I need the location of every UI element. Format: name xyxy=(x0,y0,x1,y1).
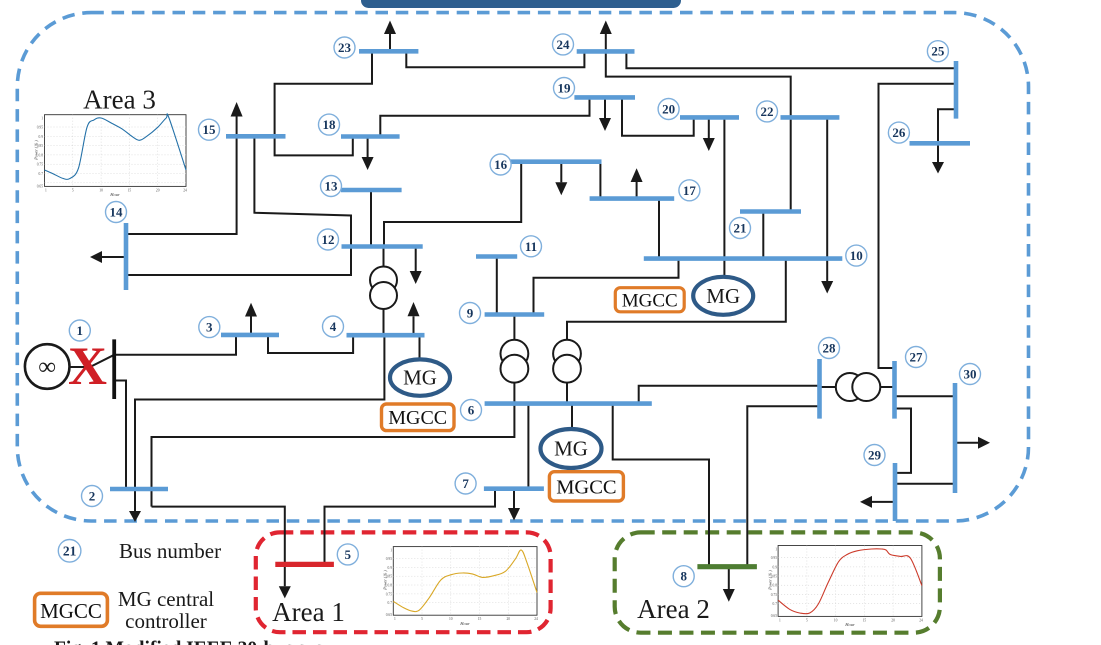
wire bus13-bus12 xyxy=(370,190,372,247)
svg-text:Power ( % ): Power ( % ) xyxy=(34,140,39,161)
node 15 xyxy=(199,119,220,140)
svg-text:0.7: 0.7 xyxy=(773,602,778,606)
wire bus14-bus15 xyxy=(128,136,237,234)
svg-text:1: 1 xyxy=(394,617,396,621)
svg-text:1: 1 xyxy=(45,189,47,193)
svg-text:21: 21 xyxy=(63,544,77,559)
bus 21 xyxy=(740,209,801,214)
svg-text:10: 10 xyxy=(449,617,453,621)
bus 9 xyxy=(485,312,545,317)
svg-text:24: 24 xyxy=(557,37,571,52)
wire bus3-bus4 xyxy=(268,335,353,353)
svg-text:Power ( % ): Power ( % ) xyxy=(768,570,773,591)
wire bus4-MG stub xyxy=(419,335,421,359)
wire bus25-bus26 xyxy=(938,109,955,162)
MG microgrid at bus10 xyxy=(693,277,753,315)
load arrow bus20 xyxy=(703,117,715,151)
svg-text:24: 24 xyxy=(919,618,923,622)
svg-text:15: 15 xyxy=(863,618,867,622)
bus 18 xyxy=(341,134,400,139)
svg-text:Hour: Hour xyxy=(844,622,855,627)
bus 10 xyxy=(644,256,843,261)
wire bus10-bus9 xyxy=(534,259,679,315)
svg-text:12: 12 xyxy=(322,232,335,247)
svg-text:25: 25 xyxy=(931,44,945,59)
Area 1 load chart xyxy=(383,547,539,626)
svg-text:3: 3 xyxy=(206,320,213,335)
svg-text:controller: controller xyxy=(125,609,207,633)
bus 1 (black busbar) xyxy=(112,339,116,399)
Area 1 dashed border xyxy=(256,532,551,632)
wire bus27-bus30 xyxy=(896,395,954,397)
bus 20 xyxy=(680,115,739,120)
bus 30 xyxy=(953,383,958,493)
node 23 xyxy=(334,37,355,58)
svg-text:10: 10 xyxy=(99,189,103,193)
svg-text:15: 15 xyxy=(478,617,482,621)
node 21 xyxy=(730,218,751,239)
svg-text:0.95: 0.95 xyxy=(37,126,43,130)
svg-text:1: 1 xyxy=(41,117,43,121)
bus 24 xyxy=(577,49,635,54)
node 1 xyxy=(69,320,90,341)
wire bus17-bus10 xyxy=(658,199,660,259)
svg-text:MG: MG xyxy=(554,437,588,461)
load arrow bus16 xyxy=(555,162,567,196)
wire bus25-bus27 xyxy=(879,84,955,368)
svg-text:17: 17 xyxy=(683,183,697,198)
transformer T4 bus28-bus27 xyxy=(836,373,881,401)
svg-text:MG: MG xyxy=(403,366,437,390)
wire bus6-bus28 xyxy=(639,386,818,404)
legend MGCC symbol xyxy=(35,593,108,626)
wire bus6-bus8 xyxy=(613,404,709,567)
svg-text:29: 29 xyxy=(868,448,882,463)
bus 29 xyxy=(893,463,898,521)
svg-text:5: 5 xyxy=(806,618,808,622)
transformer T3 bus10-bus6 xyxy=(553,340,581,383)
svg-text:0.7: 0.7 xyxy=(39,172,44,176)
svg-text:18: 18 xyxy=(323,117,337,132)
wire bus16-bus12 xyxy=(384,162,521,247)
svg-text:Bus number: Bus number xyxy=(119,539,221,563)
bus 3 xyxy=(221,333,279,338)
svg-text:26: 26 xyxy=(892,125,906,140)
wire bus1-bus2 xyxy=(114,381,126,490)
svg-text:2: 2 xyxy=(89,489,96,504)
svg-text:6: 6 xyxy=(468,403,475,418)
svg-text:21: 21 xyxy=(734,221,747,236)
node 3 xyxy=(199,317,220,338)
node 11 xyxy=(521,236,542,257)
svg-text:0.65: 0.65 xyxy=(37,185,43,189)
svg-text:10: 10 xyxy=(850,248,863,263)
wire bus8-bus28 xyxy=(747,406,818,566)
svg-text:20: 20 xyxy=(891,618,895,622)
bus 16 xyxy=(503,159,602,164)
wire bus12-bus14 xyxy=(128,247,351,276)
MG microgrid at bus4 xyxy=(390,359,450,395)
svg-text:Area 3: Area 3 xyxy=(83,85,156,115)
bus 15 xyxy=(226,134,286,139)
svg-text:23: 23 xyxy=(338,40,352,55)
svg-text:0.9: 0.9 xyxy=(39,135,44,139)
wire bus9-transformer-bus6 xyxy=(513,315,515,404)
transformer T2 bus9-bus6 xyxy=(501,340,529,383)
node 5 xyxy=(337,544,358,565)
load arrow bus5 xyxy=(279,586,291,598)
svg-text:5: 5 xyxy=(345,547,352,562)
wire bus12-transformer-bus4 xyxy=(383,247,385,336)
wire bus29-bus30 xyxy=(897,483,954,485)
load arrow bus14 xyxy=(90,251,124,263)
svg-text:Hour: Hour xyxy=(459,621,470,626)
svg-text:0.95: 0.95 xyxy=(386,557,392,561)
wire bus4-bus2 load xyxy=(135,335,384,511)
node 16 xyxy=(490,154,511,175)
load arrow bus7 xyxy=(508,489,520,521)
wire bus6-bus2 xyxy=(152,404,515,507)
svg-text:8: 8 xyxy=(680,569,687,584)
node 14 xyxy=(106,202,127,223)
svg-text:0.75: 0.75 xyxy=(771,593,777,597)
bus 8 (islanded green) xyxy=(697,564,757,569)
generation arrow bus15 xyxy=(231,102,243,136)
svg-text:0.9: 0.9 xyxy=(388,566,393,570)
svg-text:19: 19 xyxy=(558,81,572,96)
node 8 xyxy=(673,566,694,587)
node 2 xyxy=(82,486,103,507)
load arrow bus26 xyxy=(932,162,944,174)
svg-text:9: 9 xyxy=(467,306,474,321)
bus 6 xyxy=(485,401,652,406)
load arrow bus8 xyxy=(723,567,735,602)
wire bus23-bus15 xyxy=(275,51,372,155)
wire bus6-bus7 xyxy=(527,404,529,489)
node 28 xyxy=(819,338,840,359)
load arrow bus18 xyxy=(362,137,374,171)
svg-text:14: 14 xyxy=(110,205,124,220)
svg-text:0.8: 0.8 xyxy=(773,584,778,588)
wire generator-bus1 xyxy=(70,355,115,367)
svg-text:15: 15 xyxy=(128,189,132,193)
svg-text:5: 5 xyxy=(72,189,74,193)
bus 27 xyxy=(892,361,897,419)
MGCC controller at bus4 xyxy=(382,404,455,431)
load arrow bus10 xyxy=(821,281,833,294)
node 18 xyxy=(319,114,340,135)
svg-text:11: 11 xyxy=(525,239,537,254)
node 9 xyxy=(460,303,481,324)
bus 2 xyxy=(110,487,168,492)
svg-text:13: 13 xyxy=(325,179,339,194)
svg-text:Area 1: Area 1 xyxy=(272,597,345,627)
svg-text:1: 1 xyxy=(779,618,781,622)
wire bus15-bus12 xyxy=(254,136,351,246)
generation arrow bus24 xyxy=(600,21,612,52)
load arrow bus12 xyxy=(410,247,422,285)
svg-text:27: 27 xyxy=(910,350,924,365)
node 4 xyxy=(323,316,344,337)
Area 3 load chart xyxy=(34,114,188,197)
svg-text:MG central: MG central xyxy=(118,587,214,611)
wire bus10-transformer-bus6 xyxy=(567,259,786,404)
svg-text:24: 24 xyxy=(183,189,187,193)
load arrow bus30 xyxy=(957,437,990,449)
transformer T1 bus12-bus4 xyxy=(370,267,397,310)
svg-text:Power ( % ): Power ( % ) xyxy=(383,570,388,591)
node 17 xyxy=(679,180,700,201)
svg-text:30: 30 xyxy=(964,367,977,382)
node 29 xyxy=(864,445,885,466)
svg-text:7: 7 xyxy=(462,476,469,491)
svg-text:0.75: 0.75 xyxy=(37,163,43,167)
node 12 xyxy=(318,229,339,250)
generation arrow bus4 xyxy=(408,302,420,335)
wire bus23-bus24 xyxy=(406,51,584,67)
svg-text:4: 4 xyxy=(330,319,337,334)
svg-text:20: 20 xyxy=(507,617,511,621)
node 10 xyxy=(846,245,867,266)
bus 11 xyxy=(476,254,517,259)
bus 22 xyxy=(781,115,840,120)
node 6 xyxy=(461,400,482,421)
wire bus2-bus5 xyxy=(152,507,285,587)
svg-text:0.95: 0.95 xyxy=(771,556,777,560)
legend bus number symbol xyxy=(58,540,81,563)
main grid dashed border xyxy=(17,13,1028,521)
load arrow bus29 xyxy=(860,496,893,508)
svg-text:1: 1 xyxy=(775,548,777,552)
bus 19 xyxy=(574,95,635,100)
bus 17 xyxy=(590,196,675,201)
svg-text:Area 2: Area 2 xyxy=(637,594,710,624)
svg-text:22: 22 xyxy=(761,104,774,119)
bus 12 xyxy=(342,244,423,249)
MGCC controller at bus6 xyxy=(549,472,623,501)
top title bar (cropped) xyxy=(361,0,681,8)
wire bus24-bus25 xyxy=(626,51,954,68)
svg-text:MG: MG xyxy=(706,284,740,308)
svg-text:Hour: Hour xyxy=(109,192,120,197)
generation arrow bus23 xyxy=(384,21,396,52)
svg-text:0.9: 0.9 xyxy=(773,565,778,569)
bus 13 xyxy=(341,188,402,193)
wire bus27-bus29 xyxy=(896,409,911,473)
svg-text:Fig. 1 Modified IEEE 30-bus sy: Fig. 1 Modified IEEE 30-bus sys xyxy=(54,639,323,645)
svg-text:∞: ∞ xyxy=(38,354,56,381)
node 25 xyxy=(927,41,948,62)
bus 14 xyxy=(124,223,129,290)
Area 2 dashed border xyxy=(615,532,940,632)
bus 23 xyxy=(359,49,418,54)
svg-text:MGCC: MGCC xyxy=(622,290,678,311)
node 30 xyxy=(960,364,981,385)
wire bus20-bus10 xyxy=(723,117,725,277)
svg-text:28: 28 xyxy=(823,341,837,356)
wire bus6-MG stub xyxy=(571,404,573,430)
svg-text:MGCC: MGCC xyxy=(40,599,102,623)
svg-text:24: 24 xyxy=(534,617,538,621)
wire bus24-bus22-bus21 xyxy=(606,51,791,211)
generation arrow bus3 xyxy=(245,303,257,335)
svg-text:0.8: 0.8 xyxy=(39,153,44,157)
svg-text:16: 16 xyxy=(494,157,508,172)
bus 25 xyxy=(954,61,959,119)
svg-text:MGCC: MGCC xyxy=(556,477,616,499)
svg-text:X: X xyxy=(68,336,107,396)
svg-text:5: 5 xyxy=(421,617,423,621)
svg-text:1: 1 xyxy=(77,323,84,338)
wire bus21-bus10 xyxy=(762,212,764,259)
svg-text:MGCC: MGCC xyxy=(388,407,447,429)
svg-text:1: 1 xyxy=(390,549,392,553)
load arrow bus19 xyxy=(599,97,611,131)
wire bus19-bus18 xyxy=(380,97,589,136)
MGCC controller at bus10 xyxy=(615,288,684,312)
bus 5 (islanded red) xyxy=(275,562,334,567)
node 26 xyxy=(888,122,909,143)
wire bus7-bus5 xyxy=(325,489,496,565)
wire bus28-bus27 transformer link xyxy=(821,386,893,388)
node 27 xyxy=(906,347,927,368)
wire bus16-bus17 xyxy=(599,162,601,199)
bus 4 xyxy=(347,333,425,338)
node 20 xyxy=(658,99,679,120)
svg-text:20: 20 xyxy=(662,102,675,117)
node 22 xyxy=(757,101,778,122)
wire bus11-bus9 xyxy=(496,257,498,315)
wire bus19-bus20 xyxy=(622,97,694,135)
wire bus1-bus3 xyxy=(114,335,236,355)
node 7 xyxy=(455,473,476,494)
bus 26 xyxy=(910,141,971,146)
svg-text:0.65: 0.65 xyxy=(386,613,392,617)
svg-text:0.65: 0.65 xyxy=(771,614,777,618)
generator (slack source) xyxy=(25,344,70,389)
svg-text:10: 10 xyxy=(834,618,838,622)
MG microgrid at bus6 xyxy=(541,429,602,468)
load arrow bus2 xyxy=(129,511,141,522)
node 13 xyxy=(321,176,342,197)
svg-text:15: 15 xyxy=(203,122,217,137)
svg-text:0.75: 0.75 xyxy=(386,592,392,596)
generation arrow bus17 xyxy=(631,168,643,198)
bus 28 xyxy=(817,359,822,419)
node 24 xyxy=(553,34,574,55)
svg-text:20: 20 xyxy=(156,189,160,193)
svg-text:0.7: 0.7 xyxy=(388,601,393,605)
bus 7 xyxy=(484,486,544,491)
Area 2 load chart xyxy=(768,546,924,628)
svg-text:0.8: 0.8 xyxy=(388,584,393,588)
node 19 xyxy=(554,78,575,99)
wire bus22-bus10 xyxy=(826,117,828,281)
